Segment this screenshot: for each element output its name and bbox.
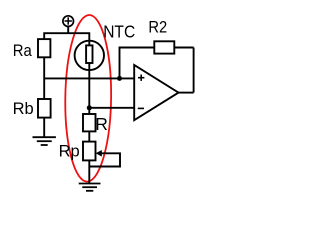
resistor Rb [38,99,51,118]
svg-text:NTC: NTC [103,22,135,42]
wiper arrow of Rp [96,150,102,157]
ground (left) [33,137,56,145]
potentiometer Rp [83,142,96,161]
ground (middle) [79,184,101,191]
op-amp - input marking [138,107,144,109]
wire R2 to feedback node [120,48,155,79]
wire noninverting input (bridge left tap to op-amp +) [44,77,134,79]
node NTC/R junction [87,105,92,110]
op-amp U1 [134,65,178,120]
wire Rp to ground [88,160,90,183]
svg-text:Rb: Rb [13,100,34,118]
wire feedback top to R2 [174,47,193,49]
supply source V+ (circle with plus) [63,16,74,27]
node feedback junction [117,76,122,81]
op-amp + input marking [138,75,144,81]
resistor R [83,114,96,131]
svg-text:R2: R2 [148,19,167,37]
svg-text:Rp: Rp [59,142,80,160]
wire Ra to Rb [43,57,45,99]
resistor R2 [154,41,174,53]
wire top rail [44,33,89,41]
wire wiper to bottom terminal [89,153,120,166]
resistor Ra [38,39,50,57]
svg-text:R: R [95,114,108,134]
wire supply to rail [67,27,69,34]
wire R to Rp [88,131,90,141]
wire NTC inner top [88,41,90,46]
red highlight ellipse around NTC/R/Rp branch [64,15,112,182]
svg-text:Ra: Ra [13,42,33,60]
wire Rb to ground [43,118,45,138]
wire inverting input (NTC/R tap to op-amp -) [89,107,134,109]
wire NTC bottom down to R [88,63,90,114]
thermistor NTC (circle with rectangle) [75,41,104,70]
wire feedback right vertical [193,48,195,93]
wire op-amp output [179,92,194,94]
